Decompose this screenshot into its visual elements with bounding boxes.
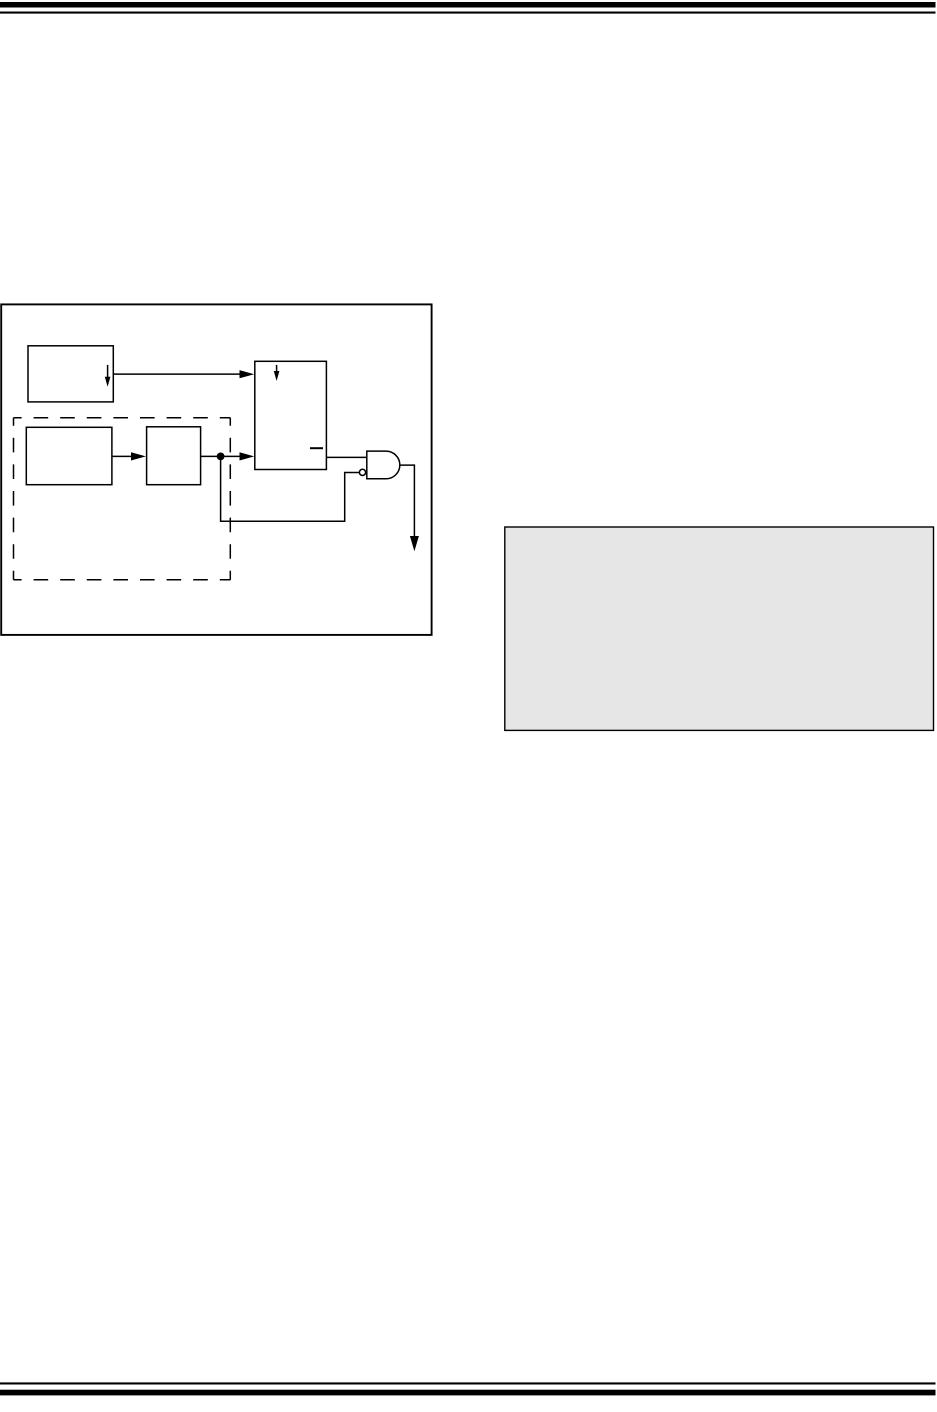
footer rule thin xyxy=(0,1382,936,1384)
wire: postscaler to junction and MUX lower input xyxy=(201,455,240,457)
inverter bubble on gate lower input xyxy=(359,469,365,475)
block: MUX xyxy=(255,361,327,469)
arrowhead into postscaler xyxy=(131,452,146,460)
wire: gate output xyxy=(400,465,414,536)
dashed box: prescaler group xyxy=(14,418,231,580)
junction node xyxy=(217,453,225,461)
block: timer source (in dashed box) xyxy=(26,427,112,484)
postscale arrow inside WDT timer block xyxy=(105,365,111,387)
figure frame xyxy=(1,304,431,635)
header rule thin xyxy=(0,12,936,14)
note box (gray) xyxy=(505,527,934,730)
AND gate xyxy=(367,451,400,479)
header rule thick xyxy=(0,2,936,8)
overbar mark inside MUX xyxy=(310,447,323,449)
wire: junction feedback to gate lower (inverted) input xyxy=(221,456,360,521)
wire: WDT timer block to MUX top input xyxy=(113,373,240,375)
arrow inside MUX xyxy=(274,365,280,381)
arrowhead into MUX (top input) xyxy=(240,370,255,378)
arrowhead: time-out output (down) xyxy=(410,536,419,551)
block: WDT timer (top-left) xyxy=(28,346,113,402)
arrowhead into MUX (lower input) xyxy=(240,452,255,460)
wire: MUX output to AND gate upper input xyxy=(326,456,367,458)
block: postscaler xyxy=(147,427,201,485)
footer rule thick xyxy=(0,1390,936,1396)
wire: timer source to postscaler xyxy=(112,455,132,457)
